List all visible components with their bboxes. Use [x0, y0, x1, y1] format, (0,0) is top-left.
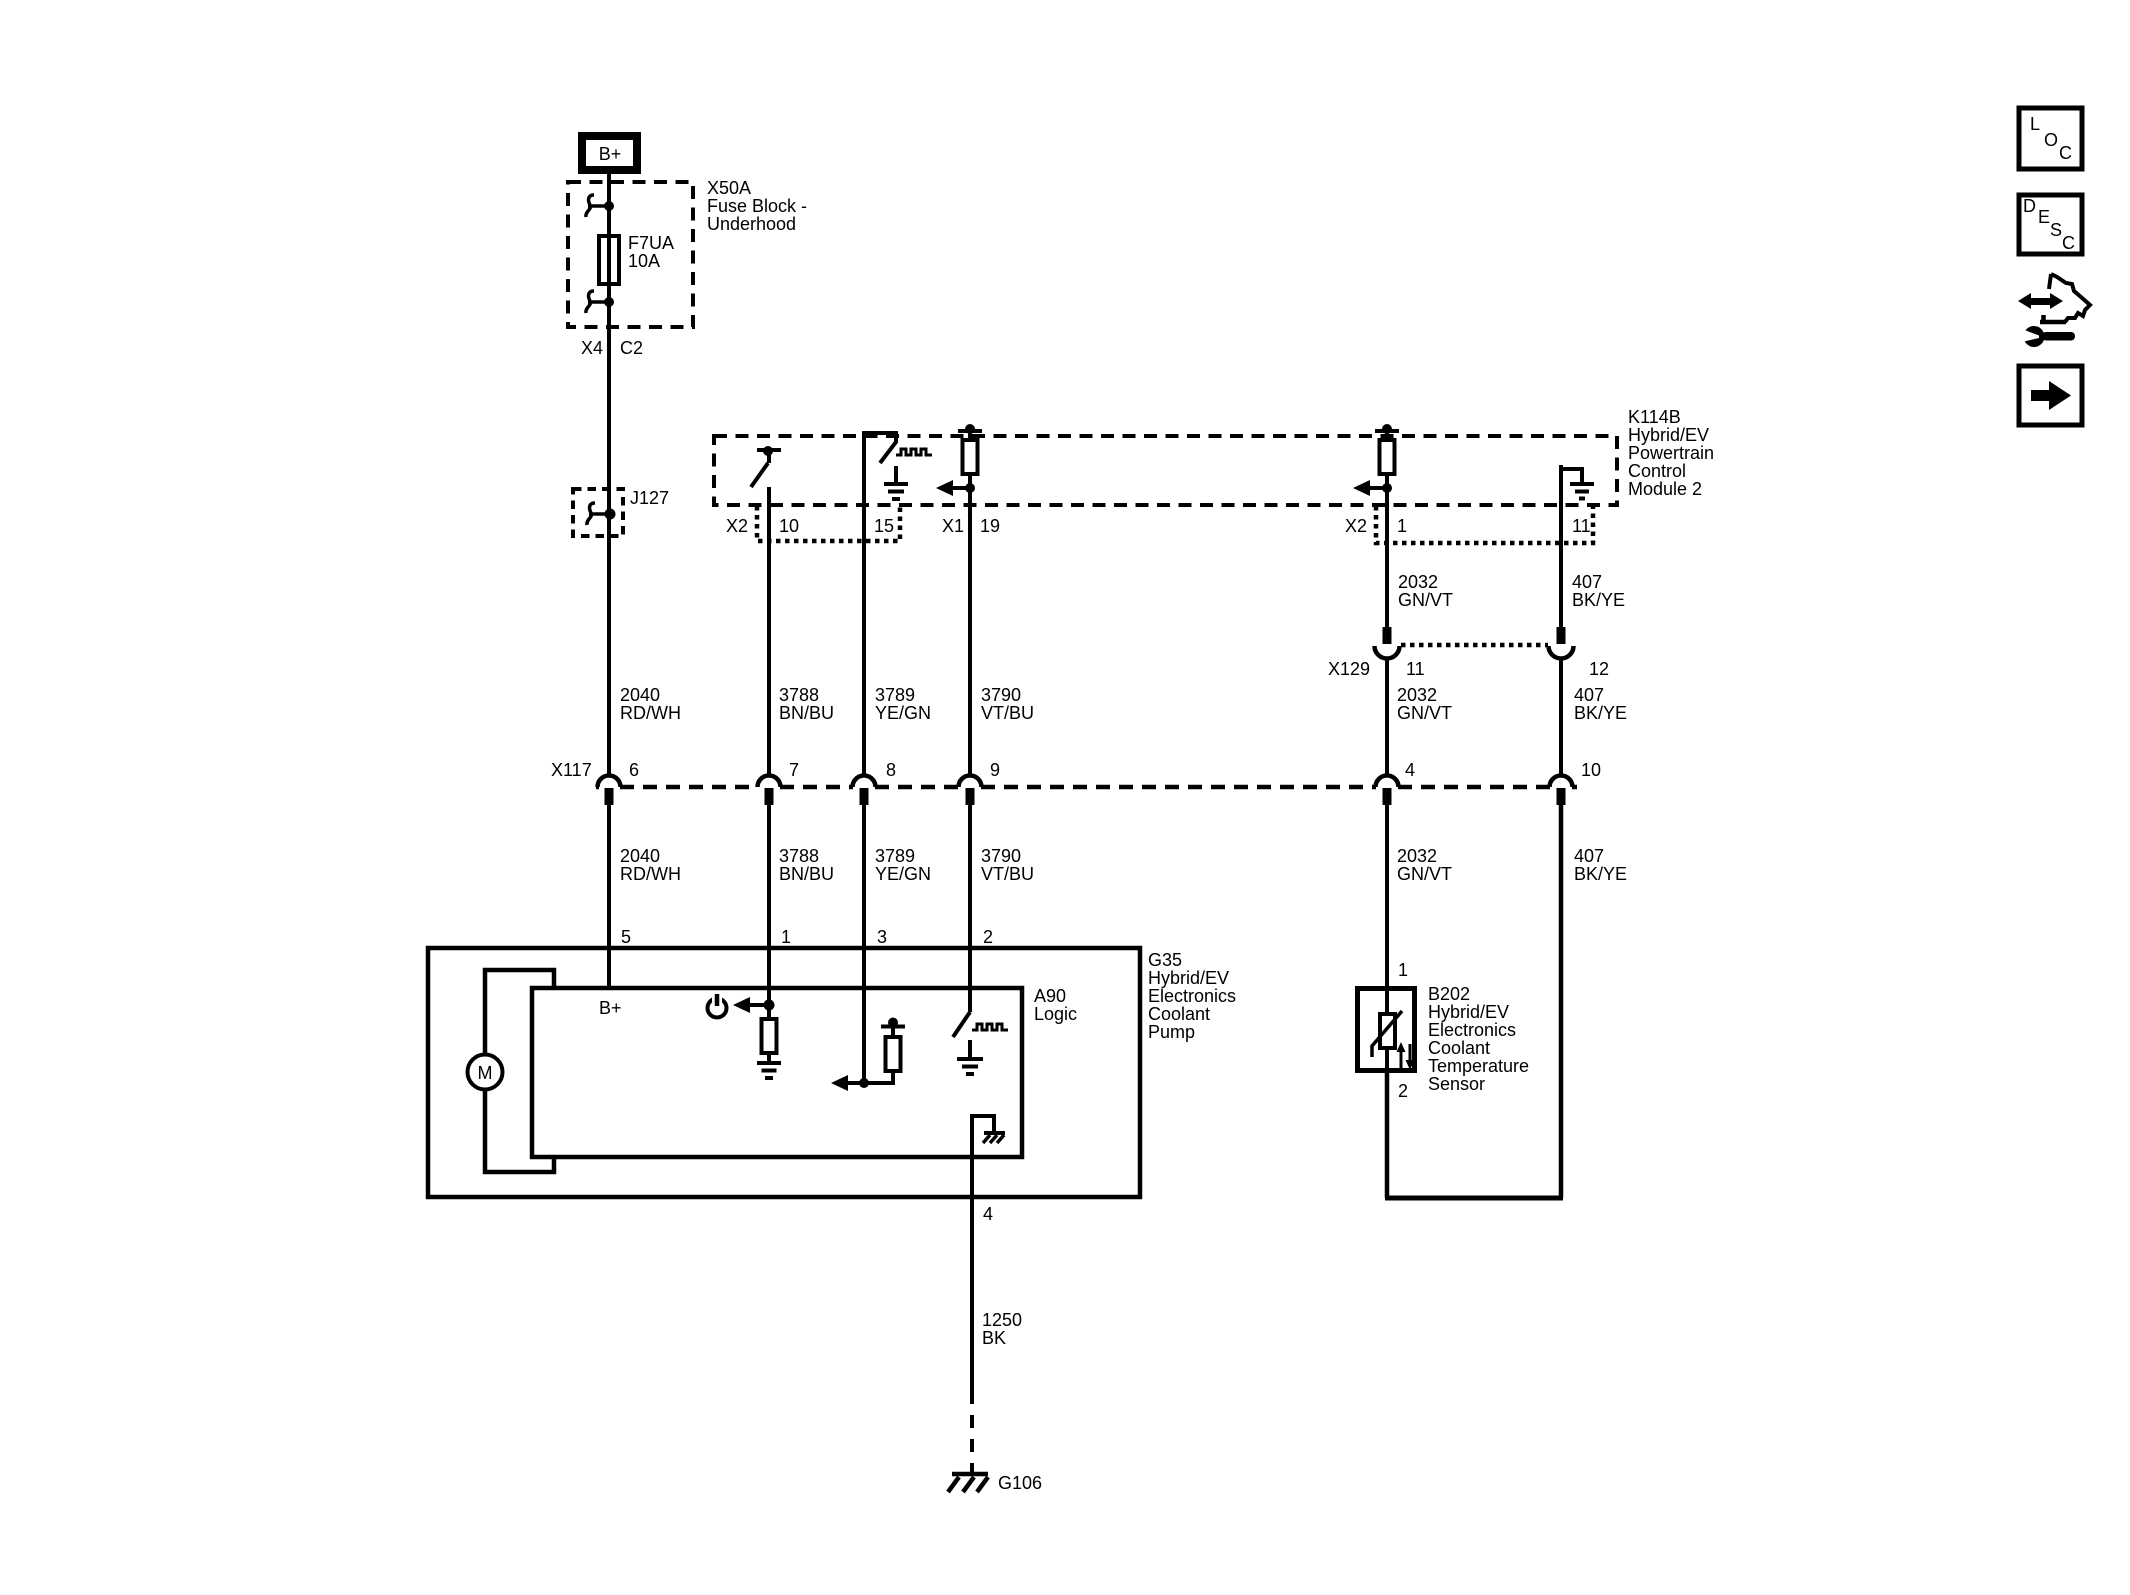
svg-text:X4: X4	[581, 338, 603, 358]
svg-text:C2: C2	[620, 338, 643, 358]
label G106	[998, 1473, 1042, 1493]
svg-text:RD/WH: RD/WH	[620, 703, 681, 723]
svg-text:11: 11	[1406, 659, 1425, 679]
pump pin labels 5 1 3 2	[621, 927, 993, 947]
svg-text:9: 9	[990, 760, 1000, 780]
svg-text:7: 7	[789, 760, 799, 780]
node label B+ inside A90	[599, 998, 622, 1018]
connector X117 pin 9 halves	[959, 776, 982, 806]
power-on symbol inside A90	[708, 994, 727, 1018]
logic module A90 box	[532, 988, 1022, 1157]
signal arrow inside A90 on pin 3 wire	[831, 1075, 869, 1091]
svg-text:Hybrid/EV: Hybrid/EV	[1628, 425, 1709, 445]
ground inside A90 below pin 2 switch	[957, 1040, 983, 1074]
wire 2040 RD/WH from X117 to pump pin 5	[607, 804, 611, 988]
svg-text:3789: 3789	[875, 846, 915, 866]
chassis ground inside A90 at pin 4	[972, 1116, 1005, 1143]
battery feed B+ box	[582, 136, 637, 170]
wire 3790 VT/BU from K114B pin 19 to X117	[968, 474, 972, 776]
signal arrow at pin 1	[1353, 480, 1392, 496]
PWM switch hook at pin 15	[864, 433, 896, 463]
svg-text:YE/GN: YE/GN	[875, 864, 931, 884]
svg-text:Hybrid/EV: Hybrid/EV	[1428, 1002, 1509, 1022]
svg-text:M: M	[478, 1063, 493, 1083]
svg-text:VT/BU: VT/BU	[981, 703, 1034, 723]
pump pin label 4	[983, 1204, 993, 1224]
resistor inside A90 on pin 1 wire	[762, 1005, 777, 1053]
wire 3788 BN/BU from K114B pin 10 to X117	[767, 487, 771, 776]
svg-text:2032: 2032	[1397, 685, 1437, 705]
fuse F7UA 10A	[599, 236, 619, 284]
module K114B dashed outline	[714, 436, 1617, 505]
svg-text:Sensor: Sensor	[1428, 1074, 1485, 1094]
internal source tap inside A90	[881, 1018, 905, 1038]
labels X129 11 12	[1328, 659, 1609, 679]
inline connector X129 dotted link	[1401, 643, 1548, 648]
wire 2032 GN/VT from X129 to X117	[1385, 658, 1389, 776]
svg-text:2040: 2040	[620, 685, 660, 705]
arrow to power-on symbol	[733, 997, 769, 1013]
svg-text:407: 407	[1574, 846, 1604, 866]
wire 3788 BN/BU from X117 to pump pin 1	[767, 804, 771, 1006]
PWM squiggle inside A90	[972, 1024, 1008, 1030]
svg-text:3789: 3789	[875, 685, 915, 705]
terminal at fuse bottom	[586, 291, 614, 313]
thermistor box B202	[1358, 989, 1415, 1071]
wire from pull-up to junction	[864, 1071, 893, 1083]
junction on pin 1 wire inside A90	[764, 1000, 775, 1011]
svg-text:BN/BU: BN/BU	[779, 703, 834, 723]
svg-text:X117: X117	[551, 760, 592, 780]
sensor pin labels 1 2	[1398, 960, 1408, 1101]
thermistor symbol in B202	[1372, 1011, 1402, 1057]
svg-text:GN/VT: GN/VT	[1398, 590, 1453, 610]
svg-text:8: 8	[886, 760, 896, 780]
svg-text:1: 1	[781, 927, 791, 947]
svg-text:GN/VT: GN/VT	[1397, 864, 1452, 884]
wire labels 2032 GN/VT and 407 BK/YE (upper)	[1398, 572, 1625, 610]
internal source tap at pin 19	[958, 424, 982, 440]
resistor inside K114B at pin 19	[963, 440, 978, 474]
svg-text:BK/YE: BK/YE	[1572, 590, 1625, 610]
svg-text:3788: 3788	[779, 846, 819, 866]
svg-text:X1: X1	[942, 516, 964, 536]
wire label 2040 RD/WH (upper)	[620, 685, 681, 723]
svg-text:2: 2	[1398, 1081, 1408, 1101]
label J127	[630, 488, 669, 508]
icon LOC box	[2019, 108, 2082, 169]
icon harness routing (double arrow, outline, wrench)	[2018, 274, 2090, 347]
switch contact in K114B at pin 10	[757, 446, 781, 463]
svg-text:5: 5	[621, 927, 631, 947]
svg-text:L: L	[2030, 114, 2040, 134]
svg-text:Control: Control	[1628, 461, 1686, 481]
connector X117 pin 6 halves	[598, 776, 621, 806]
svg-text:Underhood: Underhood	[707, 214, 796, 234]
ground G106	[948, 1474, 988, 1492]
icon DESC box	[2019, 195, 2082, 254]
wire thermistor to box bottom	[1385, 1048, 1389, 1072]
label X50A Fuse Block - Underhood	[707, 178, 807, 234]
wire labels row above X117	[779, 685, 1627, 723]
svg-text:Powertrain: Powertrain	[1628, 443, 1714, 463]
connector X2 dotted box (pins 10,15)	[757, 506, 900, 541]
connector X117 pin 10 halves	[1550, 776, 1573, 806]
svg-text:Hybrid/EV: Hybrid/EV	[1148, 968, 1229, 988]
svg-text:1: 1	[1397, 516, 1407, 536]
motor wire loop	[485, 970, 554, 1172]
svg-text:Temperature: Temperature	[1428, 1056, 1529, 1076]
pin labels K114B X2 1 11	[1345, 516, 1591, 536]
terminal at fuse top	[586, 195, 614, 217]
icon next-page arrow box	[2019, 366, 2082, 425]
label B202 sensor	[1428, 984, 1529, 1094]
svg-text:BK: BK	[982, 1328, 1006, 1348]
svg-text:D: D	[2023, 196, 2036, 216]
svg-text:GN/VT: GN/VT	[1397, 703, 1452, 723]
wire 2032 GN/VT from X117 to sensor B202 pin 1	[1385, 804, 1389, 990]
svg-text:BK/YE: BK/YE	[1574, 703, 1627, 723]
svg-text:12: 12	[1589, 659, 1609, 679]
svg-text:BK/YE: BK/YE	[1574, 864, 1627, 884]
PWM switch arm inside A90 on pin 2 wire	[953, 1012, 970, 1037]
wire 2032 GN/VT from K114B pin 1 to X129	[1385, 474, 1389, 628]
switch arm in K114B at pin 10	[751, 463, 768, 487]
svg-text:YE/GN: YE/GN	[875, 703, 931, 723]
svg-text:O: O	[2044, 130, 2058, 150]
svg-text:6: 6	[629, 760, 639, 780]
svg-text:X129: X129	[1328, 659, 1370, 679]
svg-text:Module 2: Module 2	[1628, 479, 1702, 499]
signal arrow at pin 19	[936, 480, 975, 496]
svg-text:11: 11	[1572, 516, 1591, 536]
svg-text:3790: 3790	[981, 685, 1021, 705]
sensor B202 body outline	[1385, 805, 1563, 1198]
svg-text:3788: 3788	[779, 685, 819, 705]
svg-text:2: 2	[983, 927, 993, 947]
svg-text:Electronics: Electronics	[1148, 986, 1236, 1006]
svg-text:G35: G35	[1148, 950, 1182, 970]
connector X129 pin 11 halves	[1375, 627, 1400, 659]
connector X117 pin 8 halves	[853, 776, 876, 806]
svg-text:4: 4	[1405, 760, 1415, 780]
fuse block X50A dashed outline	[568, 182, 693, 327]
motor M1	[468, 1055, 503, 1090]
wire 3790 VT/BU from X117 to pump pin 2	[968, 804, 972, 1012]
connector X117 dashed line	[596, 785, 1577, 790]
fuse value label F7UA 10A	[628, 233, 674, 271]
wire 3789 YE/GN from K114B pin 15 to X117	[862, 431, 866, 776]
svg-text:2040: 2040	[620, 846, 660, 866]
svg-text:B+: B+	[599, 998, 622, 1018]
connector X117 pin 7 halves	[758, 776, 781, 806]
pin labels X4 / C2	[581, 338, 643, 358]
svg-text:407: 407	[1574, 685, 1604, 705]
junction J127 dashed outline	[573, 489, 623, 536]
svg-text:10: 10	[779, 516, 799, 536]
wire 3789 YE/GN from X117 to pump pin 3	[862, 804, 866, 1083]
wire 407 BK/YE from K114B pin 11 to X129	[1559, 465, 1563, 628]
wire 2032 GN/VT inside thermistor box	[1385, 990, 1389, 1014]
svg-text:G106: G106	[998, 1473, 1042, 1493]
svg-text:J127: J127	[630, 488, 669, 508]
svg-text:Electronics: Electronics	[1428, 1020, 1516, 1040]
svg-text:K114B: K114B	[1628, 407, 1681, 427]
connector X129 pin 12 halves	[1549, 627, 1574, 659]
svg-text:B202: B202	[1428, 984, 1470, 1004]
internal source tap at pin 1 (X2)	[1375, 424, 1399, 440]
connector X2 dotted box (pins 1,11)	[1376, 506, 1593, 543]
svg-text:A90: A90	[1034, 986, 1066, 1006]
resistor inside K114B at pin 1	[1380, 440, 1395, 474]
svg-text:VT/BU: VT/BU	[981, 864, 1034, 884]
wire label 1250 BK	[982, 1310, 1022, 1348]
svg-text:RD/WH: RD/WH	[620, 864, 681, 884]
svg-text:C: C	[2062, 233, 2075, 253]
label K114B module	[1628, 407, 1714, 499]
svg-text:2032: 2032	[1398, 572, 1438, 592]
svg-text:3790: 3790	[981, 846, 1021, 866]
wire 407 BK/YE from X129 to X117	[1559, 658, 1563, 776]
resistor inside A90 pull-up	[886, 1037, 901, 1071]
wire 1250 BK dashed tail to G106	[970, 1391, 974, 1472]
label G35 pump	[1148, 950, 1236, 1042]
svg-text:B+: B+	[599, 144, 622, 164]
svg-text:X2: X2	[726, 516, 748, 536]
svg-text:2032: 2032	[1397, 846, 1437, 866]
pin labels K114B X2 10 15 X1 19	[726, 516, 1000, 536]
svg-text:E: E	[2038, 207, 2050, 227]
PWM squiggle at pin 15	[896, 449, 932, 455]
ground inside A90 below resistor	[757, 1053, 781, 1078]
label A90 Logic	[1034, 986, 1077, 1024]
svg-text:Coolant: Coolant	[1428, 1038, 1490, 1058]
svg-text:1250: 1250	[982, 1310, 1022, 1330]
svg-text:10A: 10A	[628, 251, 660, 271]
wire 2040 RD/WH from B+ to X117	[607, 170, 611, 776]
svg-text:19: 19	[980, 516, 1000, 536]
svg-text:Logic: Logic	[1034, 1004, 1077, 1024]
svg-text:C: C	[2059, 143, 2072, 163]
pump G35 outline	[428, 948, 1140, 1197]
svg-text:BN/BU: BN/BU	[779, 864, 834, 884]
up/down arrows in B202	[1397, 1042, 1415, 1070]
ground inside K114B below pin 15 switch	[884, 466, 908, 499]
wire 1250 BK from pump pin 4 (solid)	[970, 1114, 974, 1391]
connector X117 pin 4 halves	[1376, 776, 1399, 806]
wire labels row below X117	[620, 846, 1627, 884]
terminal in J127	[587, 503, 616, 525]
svg-text:X2: X2	[1345, 516, 1367, 536]
ground inside K114B at pin 11	[1561, 469, 1594, 499]
svg-text:X50A: X50A	[707, 178, 751, 198]
svg-text:Fuse Block -: Fuse Block -	[707, 196, 807, 216]
svg-text:3: 3	[877, 927, 887, 947]
svg-text:10: 10	[1581, 760, 1601, 780]
svg-text:F7UA: F7UA	[628, 233, 674, 253]
pin labels X117 6 7 8 9 4 10	[551, 760, 1601, 780]
svg-text:4: 4	[983, 1204, 993, 1224]
svg-text:Pump: Pump	[1148, 1022, 1195, 1042]
svg-text:Coolant: Coolant	[1148, 1004, 1210, 1024]
svg-text:407: 407	[1572, 572, 1602, 592]
svg-text:15: 15	[874, 516, 894, 536]
svg-text:S: S	[2050, 220, 2062, 240]
svg-text:1: 1	[1398, 960, 1408, 980]
